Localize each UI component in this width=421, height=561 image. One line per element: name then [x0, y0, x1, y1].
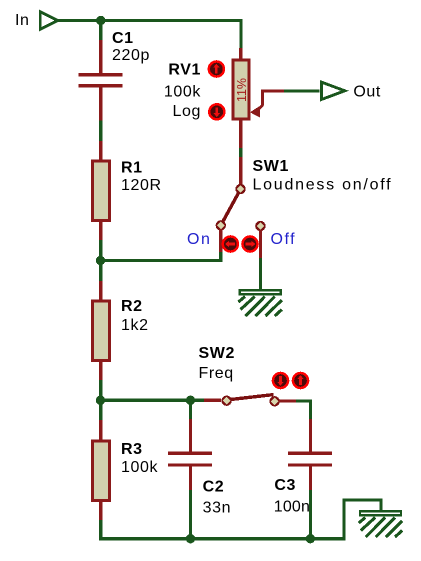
svg-text:RV1: RV1 — [168, 61, 201, 78]
ground 2 — [359, 510, 403, 537]
svg-text:100n: 100n — [274, 499, 310, 516]
svg-text:Log: Log — [173, 103, 202, 120]
pin R2 top — [99, 281, 102, 300]
wire SW2 throw to C3 corner — [296, 401, 310, 419]
svg-text:120R: 120R — [121, 177, 162, 194]
svg-text:Off: Off — [271, 231, 297, 248]
svg-text:On: On — [187, 231, 211, 248]
SW2 pole contact — [221, 396, 231, 406]
pin SW1 pole — [239, 157, 242, 185]
node E junction dot — [186, 534, 195, 543]
svg-text:C2: C2 — [203, 479, 225, 496]
wire node D down to C2 — [189, 400, 192, 419]
pin R3 top — [99, 420, 102, 440]
capacitor C3 — [288, 452, 332, 467]
SW2 throw contact — [269, 396, 279, 406]
svg-text:11%: 11% — [235, 78, 249, 102]
terminal In — [40, 12, 57, 29]
wire bottom rail to ground 2 — [310, 500, 381, 539]
svg-text:33n: 33n — [203, 499, 232, 516]
pin C1 top — [99, 40, 102, 74]
wire node B down to R2 — [99, 261, 102, 282]
wire top from In to node A — [58, 19, 101, 22]
pin RV1 bottom — [239, 120, 242, 149]
svg-text:R1: R1 — [121, 160, 143, 177]
capacitor C2 — [168, 452, 212, 467]
pin SW2 throw right — [279, 399, 296, 402]
pin R1 top — [99, 141, 102, 160]
resistor R1 — [92, 161, 109, 221]
svg-text:100k: 100k — [121, 459, 158, 476]
capacitor C1 — [79, 73, 123, 87]
wire bottom rail — [191, 537, 311, 540]
svg-text:Freq: Freq — [199, 365, 234, 382]
svg-text:SW2: SW2 — [199, 345, 235, 362]
pin C3 bottom — [309, 467, 312, 491]
pin C2 bottom — [189, 467, 192, 491]
wire RV1 to SW1 — [239, 148, 242, 157]
ground 1 — [238, 289, 282, 316]
resistor R2 — [92, 301, 109, 361]
pin SW2 pole — [204, 399, 221, 402]
wire C2 to bottom rail — [189, 490, 192, 539]
svg-text:100k: 100k — [164, 83, 201, 100]
wire C1 to R1 — [99, 121, 102, 142]
wire SW1 Off to ground — [259, 258, 262, 290]
node F junction dot — [306, 534, 315, 543]
pin C2 top — [189, 419, 192, 452]
button RV1 up — [208, 60, 226, 78]
svg-text:R2: R2 — [121, 298, 143, 315]
wire top from node A to RV1 corner — [101, 21, 241, 49]
pin R2 bottom — [99, 362, 102, 380]
pin R3 bottom — [99, 502, 102, 520]
wire node D to SW2 pole — [191, 399, 205, 402]
wire node C to SW2 — [101, 399, 191, 402]
button RV1 down — [208, 103, 226, 121]
svg-text:SW1: SW1 — [253, 158, 289, 175]
svg-text:220p: 220p — [112, 47, 150, 64]
pin C1 bottom — [99, 87, 102, 120]
pin R1 bottom — [99, 222, 102, 240]
SW1 Off contact — [255, 221, 265, 231]
svg-text:C1: C1 — [112, 30, 134, 47]
node D junction dot — [186, 396, 195, 405]
resistor R3 — [92, 441, 109, 501]
node A junction dot — [96, 16, 105, 25]
pin SW1 Off down — [259, 230, 262, 258]
wire C3 to bottom rail — [309, 490, 312, 539]
wire wiper to Out — [284, 89, 320, 92]
wire R2 to node C — [99, 380, 102, 400]
button SW2 down — [272, 372, 290, 390]
wire SW1 On to node B — [101, 252, 221, 261]
SW1 On contact — [216, 220, 226, 230]
svg-text:Loudness on/off: Loudness on/off — [253, 177, 393, 194]
svg-text:Out: Out — [353, 83, 381, 100]
svg-text:In: In — [15, 12, 30, 29]
svg-text:C3: C3 — [274, 477, 296, 494]
terminal Out — [321, 82, 344, 99]
pin SW1 On down — [219, 229, 222, 252]
wire R1 to node B — [99, 240, 102, 261]
pin C3 top — [309, 419, 312, 452]
SW1 lever — [221, 189, 241, 225]
SW1 pole contact — [235, 184, 245, 194]
potentiometer RV1 body — [233, 60, 249, 119]
button SW2 up — [292, 372, 310, 390]
button SW1 left — [222, 235, 240, 253]
button SW1 right — [241, 235, 259, 253]
svg-text:1k2: 1k2 — [121, 317, 149, 334]
RV1 wiper arrow — [250, 91, 284, 118]
wire node A down to C1 — [99, 21, 102, 41]
wire node C down to R3 — [99, 400, 102, 420]
pin RV1 top — [239, 48, 242, 59]
node B junction dot — [96, 256, 105, 265]
wire R3 to bottom rail — [101, 520, 191, 539]
node C junction dot — [96, 396, 105, 405]
SW2 lever — [228, 395, 274, 400]
svg-text:R3: R3 — [121, 441, 143, 458]
